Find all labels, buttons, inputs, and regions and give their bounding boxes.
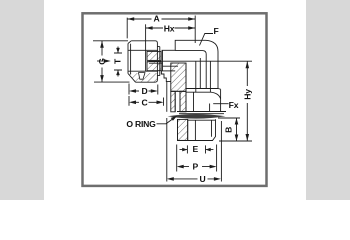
dim G <box>93 41 130 82</box>
svg-text:Hx: Hx <box>164 23 175 33</box>
dim Hy <box>219 61 252 141</box>
tube centerline <box>149 60 252 62</box>
body left edge <box>166 82 168 112</box>
nut left face second line <box>130 44 132 75</box>
ferrule bottom (hatched) <box>147 62 161 71</box>
O-ring (filled lens) <box>168 114 226 119</box>
ferrule white wedge <box>139 73 146 80</box>
svg-text:Fx: Fx <box>229 100 239 110</box>
dim T <box>114 47 122 77</box>
ferrule top (hatched) <box>147 51 161 60</box>
Fx leader <box>213 103 228 105</box>
dim P <box>177 145 217 172</box>
hex right chamfer arc <box>211 89 221 112</box>
svg-text:U: U <box>199 174 205 184</box>
elbow bore inner line <box>175 51 206 89</box>
neck top line <box>162 49 176 51</box>
O RING leader <box>157 117 176 124</box>
bore second line <box>199 58 201 89</box>
stud hatch <box>178 119 188 140</box>
svg-text:Hy: Hy <box>242 89 252 100</box>
nut hex flat lines <box>128 50 158 71</box>
dim U <box>167 118 222 182</box>
svg-text:C: C <box>141 97 147 107</box>
F leader <box>200 34 214 46</box>
body hatch lower strips <box>171 91 175 112</box>
bore edge line <box>185 63 187 112</box>
centerline arrow <box>97 60 104 62</box>
hex face lines <box>194 92 210 112</box>
svg-text:P: P <box>193 162 199 172</box>
body left profile staircase <box>161 71 170 82</box>
svg-text:E: E <box>193 144 199 154</box>
washer line <box>177 112 226 114</box>
elbow head outline <box>175 40 218 88</box>
dim A <box>127 16 195 44</box>
head bottom line <box>186 88 218 90</box>
nut outline <box>128 41 156 82</box>
vertical port outer bore lines <box>196 62 211 93</box>
dim E <box>180 145 214 153</box>
stud section bore line <box>187 119 189 140</box>
sleeve end line <box>162 50 164 71</box>
neck bottom line <box>162 70 176 72</box>
nut hex corner line <box>145 24 147 71</box>
nut bottom band hatch <box>129 73 159 82</box>
dim C <box>129 96 164 106</box>
right gray band <box>306 0 350 200</box>
svg-text:F: F <box>213 26 218 36</box>
section slot lines <box>171 91 186 112</box>
stud inner lines <box>195 120 211 140</box>
dim D <box>129 84 158 95</box>
svg-text:D: D <box>141 86 147 96</box>
nut right end cap <box>156 41 160 82</box>
dim Hx <box>146 27 196 29</box>
stud top edge <box>188 119 216 121</box>
hex top line <box>186 91 211 93</box>
body hatch region <box>171 63 186 91</box>
left gray band <box>0 0 44 200</box>
svg-text:T: T <box>112 58 122 64</box>
svg-text:B: B <box>224 127 234 133</box>
svg-text:G: G <box>97 58 107 65</box>
border frame <box>83 13 267 186</box>
stud outline <box>178 119 216 140</box>
svg-text:A: A <box>153 14 159 24</box>
dim B <box>218 118 240 141</box>
svg-text:O RING: O RING <box>126 119 156 129</box>
tube inner lines <box>149 63 178 66</box>
